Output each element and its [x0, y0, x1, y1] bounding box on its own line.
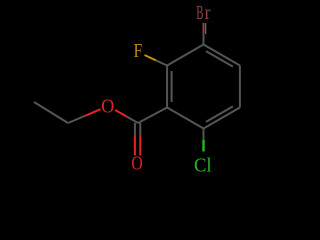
ester C=O double bond line 1 (O half, red): [134, 136, 136, 156]
bond esterC-O (carbon half): [127, 117, 138, 124]
svg-text:F: F: [134, 41, 143, 62]
ring bond C4-C3 inner double line: [206, 51, 233, 67]
ring bond C5-C4: [239, 66, 241, 108]
ring bond C6-C5 inner double line: [206, 106, 233, 122]
bond C3-Br (carbon half): [203, 34, 205, 45]
bond CH2-CH3: [34, 102, 68, 123]
bond C3-Br (Br half, maroon): [203, 23, 205, 34]
ring bond C3-C2: [167, 45, 203, 66]
svg-text:B: B: [196, 3, 203, 24]
bond C2-F (carbon half): [156, 60, 167, 65]
svg-text:O: O: [101, 96, 114, 117]
svg-text:O: O: [131, 154, 142, 175]
ester C=O double bond line 2 (O half, red): [139, 136, 141, 156]
ring bond C6-C5: [204, 108, 240, 129]
bond C3-Br highlight sliver: [205, 23, 207, 34]
bond O-CH2 (O half, red): [86, 109, 101, 115]
ester C=O double bond line 1 (carbon half): [134, 123, 136, 136]
ester C=O double bond line 2 (carbon half): [139, 123, 141, 136]
ring bond C2-C1 inner double line: [171, 71, 173, 102]
bond esterC-O (O half, red): [115, 110, 127, 117]
svg-text:r: r: [205, 3, 211, 24]
bond C1-C(ester): [138, 108, 167, 124]
ring bond C1-C6: [167, 108, 203, 129]
ring bond C4-C3: [204, 45, 240, 66]
svg-text:Cl: Cl: [194, 155, 212, 176]
bond C6-Cl (carbon half): [203, 129, 205, 141]
ring bond C2-C1: [166, 66, 168, 108]
bond C2-F (F half, gold): [145, 55, 156, 60]
bond O-CH2 (carbon half): [68, 115, 86, 123]
bond C6-Cl (Cl half, green): [202, 140, 204, 152]
